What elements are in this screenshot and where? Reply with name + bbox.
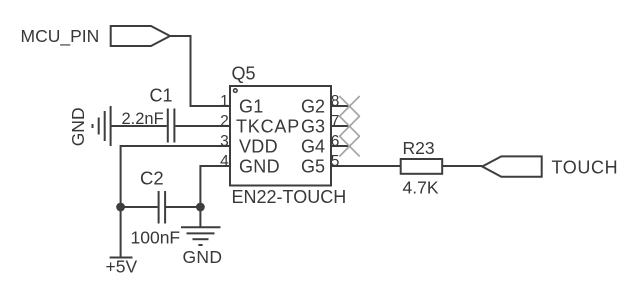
svg-text:VDD: VDD (239, 137, 278, 157)
svg-text:R23: R23 (403, 138, 435, 158)
svg-text:5: 5 (331, 153, 340, 170)
svg-text:C2: C2 (140, 168, 164, 189)
svg-text:EN22-TOUCH: EN22-TOUCH (232, 187, 347, 207)
svg-text:3: 3 (220, 133, 229, 150)
svg-text:4: 4 (220, 153, 229, 170)
svg-text:G5: G5 (301, 157, 325, 177)
svg-text:Q5: Q5 (232, 64, 256, 84)
svg-text:MCU_PIN: MCU_PIN (21, 26, 100, 47)
svg-text:G3: G3 (301, 117, 325, 137)
svg-text:G4: G4 (301, 137, 325, 157)
svg-text:4.7K: 4.7K (403, 178, 439, 198)
svg-text:TOUCH: TOUCH (552, 158, 619, 178)
svg-text:7: 7 (331, 113, 340, 130)
svg-text:G2: G2 (301, 97, 325, 117)
svg-text:100nF: 100nF (131, 228, 181, 248)
svg-text:TKCAP: TKCAP (236, 117, 300, 137)
svg-text:+5V: +5V (106, 257, 138, 277)
svg-text:8: 8 (331, 93, 340, 110)
svg-text:GND: GND (68, 107, 88, 146)
svg-text:2: 2 (220, 113, 229, 130)
svg-text:1: 1 (220, 93, 229, 110)
svg-text:GND: GND (239, 157, 280, 177)
svg-text:G1: G1 (239, 97, 264, 117)
svg-text:2.2nF: 2.2nF (122, 110, 164, 128)
svg-text:C1: C1 (150, 86, 173, 106)
svg-text:6: 6 (331, 133, 340, 150)
svg-text:GND: GND (183, 247, 223, 267)
